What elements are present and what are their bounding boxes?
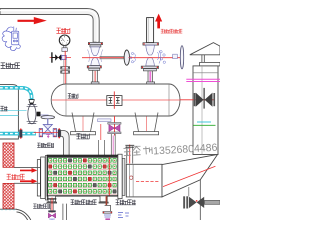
- gauge line flanges: [61, 67, 70, 70]
- flange on feed pipe: [19, 130, 22, 138]
- safety valve top flange: [143, 43, 159, 45]
- label: 锅炉给水口: [37, 143, 54, 147]
- wire riser pipe to workshop: [147, 18, 154, 43]
- water tank (left edge): [0, 85, 18, 139]
- expanding flue duct to chimney: [162, 154, 218, 197]
- label: 输送蒸汽到车间 (red): [161, 29, 183, 33]
- magenta lines: [186, 79, 220, 81]
- inline fitting on steam line: [173, 54, 178, 58]
- red up arrow: [157, 21, 160, 29]
- brick pillar bottom: [3, 183, 14, 208]
- brick pillar top: [3, 143, 14, 167]
- blue sketch: hand with device: [2, 27, 20, 51]
- economizer right header: [118, 154, 122, 198]
- label: 锅炉水出口: [33, 204, 50, 208]
- wire pipe below economizer foot: [63, 204, 67, 220]
- label fragment on tank: [0, 106, 7, 111]
- valve handwheel (side): [100, 56, 125, 58]
- chimney rain cap: [190, 43, 220, 55]
- blowdown valve 排污阀: [114, 116, 116, 136]
- cyan + green level lines: [197, 121, 211, 123]
- feed pump P1: [28, 104, 36, 124]
- economizer feet: [48, 196, 56, 202]
- flue duct walls: [14, 167, 40, 183]
- blue handwheel scribbles left/right: [130, 51, 166, 64]
- op valve V1 body (globe): [91, 47, 100, 56]
- orifice paddle (tall ellipse): [180, 46, 183, 69]
- gauge stem fitting: [63, 46, 66, 48]
- red flow arrow: [18, 20, 35, 22]
- funnel: [29, 100, 34, 103]
- feed water valve (front view): [41, 116, 55, 119]
- wire gauge line down to drum: [64, 51, 66, 88]
- bottom right valve on pipe: [183, 196, 185, 208]
- tank water level line: [0, 114, 18, 116]
- ground line + bottom pipe bend: [0, 208, 17, 210]
- steam drum 分汽缸: [51, 84, 180, 116]
- drum red centerline: [52, 99, 180, 101]
- wire pipe valve to drum: [93, 70, 98, 84]
- wire elbow pipe down to economizer: [61, 131, 69, 157]
- label: 分汽缸: [68, 94, 78, 99]
- pump discharge line: [41, 114, 49, 116]
- chimney collar: [200, 62, 220, 66]
- label: 排污阀: [76, 134, 89, 139]
- pressure gauge dial: [59, 35, 70, 46]
- economizer left header plates: [37, 160, 40, 196]
- cap posts: [202, 55, 204, 62]
- red arrows flue: [20, 168, 37, 173]
- watermark 王金坤 13526804486: [123, 146, 152, 156]
- label: 循环水进口: [116, 200, 136, 205]
- red centerline through valve: [82, 57, 127, 59]
- safety valve bottom flange: [141, 66, 158, 68]
- wire steam main pipe with elbow: [0, 9, 99, 43]
- label: 操作流程: [1, 63, 20, 69]
- label: 烟气出口 (red): [7, 174, 25, 179]
- safety valve SV body: [146, 45, 155, 55]
- drain valve assembly: [48, 198, 57, 200]
- fan/duct cylinder: [126, 164, 162, 197]
- chimney damper valve: [203, 88, 205, 109]
- label: 压力表 (red): [56, 28, 70, 33]
- drum support leg left: [72, 113, 94, 132]
- wire pipe safety valve to drum (pink core): [148, 71, 153, 84]
- flange before elbow: [58, 129, 61, 137]
- red line in economizer: [108, 157, 110, 196]
- red line drum to chimney valve: [180, 99, 214, 101]
- drain valve under economizer right: [105, 196, 107, 205]
- drum support leg right: [135, 113, 158, 132]
- wire blowdown pipes to economizer: [99, 140, 105, 156]
- economizer body 节能器: [47, 155, 118, 196]
- gauge isolation valve (black, T-handle): [50, 57, 72, 59]
- wire cyan suction pipe over tank: [0, 88, 32, 100]
- label: 节能器/省煤器: [71, 200, 97, 205]
- small blue marks bottom: [118, 213, 129, 218]
- nameplate box: [107, 96, 122, 106]
- valve bottom flange: [87, 66, 101, 68]
- flange below elbow: [88, 42, 102, 44]
- chimney body: [193, 66, 218, 155]
- wire pipe from drum area to fan inlet: [127, 146, 133, 163]
- wire cyan feed pipe: [0, 132, 19, 136]
